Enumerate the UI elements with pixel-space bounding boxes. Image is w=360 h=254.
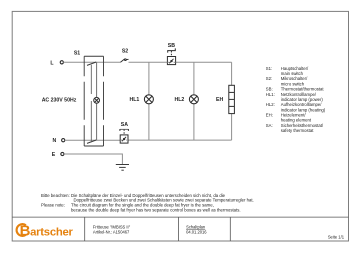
wire E to ground — [64, 154, 122, 164]
note text — [41, 193, 254, 213]
node N terminal — [62, 139, 65, 142]
svg-text:B: B — [20, 222, 31, 239]
node L terminal — [60, 61, 63, 64]
title block product text — [93, 224, 131, 234]
thermostat SB — [167, 48, 175, 64]
wire N to S1 bottom pole — [65, 139, 84, 141]
svg-text:HL1: HL1 — [130, 97, 140, 103]
wire HL1 branch — [148, 62, 150, 95]
svg-text:because the double deep fat fr: because the double deep fat fryer has tw… — [71, 207, 241, 212]
svg-text:Artikel-Nr.: A150467: Artikel-Nr.: A150467 — [93, 229, 130, 234]
indicator lamp HL2 — [189, 95, 198, 104]
ground — [116, 165, 129, 171]
heating element EH — [229, 85, 235, 113]
wire right rail down to EH — [231, 62, 233, 85]
svg-text:EH:: EH: — [266, 112, 273, 117]
wire bottom rail right corner to SA — [128, 139, 232, 141]
svg-text:Please note:: Please note: — [41, 203, 65, 208]
svg-text:HL2: HL2 — [175, 97, 185, 103]
svg-text:SA:: SA: — [266, 123, 273, 128]
svg-text:artscher: artscher — [30, 226, 73, 238]
svg-text:S2:: S2: — [266, 76, 272, 81]
svg-text:EH: EH — [216, 97, 223, 103]
main switch S1 — [84, 56, 103, 146]
svg-text:L: L — [50, 60, 54, 66]
svg-text:S1: S1 — [74, 50, 80, 56]
svg-text:HL2:: HL2: — [266, 102, 275, 107]
svg-text:Seite 1/1: Seite 1/1 — [328, 235, 345, 240]
wire S1 bottom pole to SA — [84, 139, 120, 141]
svg-text:AC 230V 50Hz: AC 230V 50Hz — [42, 97, 77, 103]
title block frame — [12, 217, 348, 241]
svg-text:SA: SA — [121, 122, 128, 128]
svg-text:Bitte beachten:: Bitte beachten: — [41, 193, 70, 198]
svg-text:S2: S2 — [122, 49, 128, 55]
wire EH to bottom rail — [231, 114, 233, 141]
legend — [266, 66, 326, 133]
svg-text:SB: SB — [168, 43, 175, 49]
svg-text:04.01.2016: 04.01.2016 — [186, 229, 207, 234]
indicator lamp inside S1 — [94, 97, 100, 103]
indicator lamp HL1 — [144, 95, 153, 104]
wire HL2 branch — [193, 62, 195, 95]
node E terminal — [61, 152, 64, 155]
svg-text:S1:: S1: — [266, 66, 272, 71]
wire top rail S1 to S2 — [84, 61, 120, 63]
wire L to S1 — [63, 61, 84, 63]
svg-text:HL1:: HL1: — [266, 92, 275, 97]
svg-text:E: E — [52, 152, 56, 158]
wire top rail S2 to SB — [129, 61, 168, 63]
title block plan text — [186, 224, 207, 234]
svg-text:safety thermostat: safety thermostat — [281, 128, 314, 133]
svg-text:N: N — [52, 138, 56, 144]
safety thermostat SA — [120, 129, 128, 143]
Bartscher logo — [17, 222, 74, 239]
wire top rail SB to right corner — [176, 61, 232, 63]
microswitch S2 — [121, 59, 129, 62]
